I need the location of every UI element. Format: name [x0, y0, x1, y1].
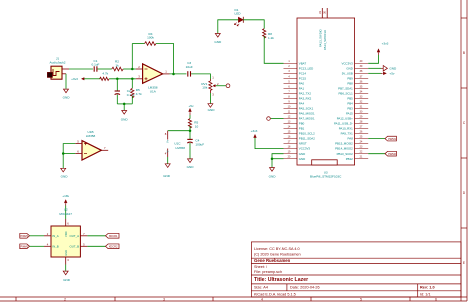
- pin 36 PB8 of U3: [347, 80, 368, 85]
- wire RV1 bottom to gnd: [209, 93, 211, 103]
- wire J1 tip to C1: [69, 68, 93, 70]
- pin 7 OUT_A of U2: [80, 235, 87, 237]
- connector J1 AudioJack2: [47, 56, 69, 79]
- pin 4 IN_B of U2: [44, 245, 51, 247]
- svg-text:4.7k: 4.7k: [136, 92, 142, 96]
- wire PWM1 tag to U2 pin2: [30, 235, 45, 237]
- svg-text:GND: GND: [121, 117, 129, 121]
- op-amp U1B LM358: [75, 130, 108, 160]
- wire U1B to gnd: [62, 154, 64, 169]
- svg-text:Rev: 1.0: Rev: 1.0: [420, 285, 435, 289]
- pin 20 GND of U3: [284, 156, 306, 161]
- svg-text:PA7_MOSI1: PA7_MOSI1: [299, 117, 315, 121]
- pin 8 PA3_RX2 of U3: [284, 95, 312, 100]
- svg-text:E: E: [463, 261, 465, 265]
- ground at RV1: [208, 104, 216, 112]
- power +3v3 at U3 top right: [377, 42, 389, 55]
- svg-text:BluePill_STM32F103C: BluePill_STM32F103C: [310, 175, 342, 179]
- pin 24 PB15_MOSI2 of U3: [335, 141, 368, 146]
- pin 5 OUT_B of U2: [80, 245, 87, 247]
- svg-text:PWM2: PWM2: [21, 245, 29, 249]
- sheet frame bottom border: [0, 297, 467, 301]
- driver U2 MIC4427 body: [51, 226, 80, 257]
- potentiometer RV1 10k: [201, 76, 219, 97]
- svg-text:GND: GND: [64, 250, 68, 256]
- svg-text:Id: 1/1: Id: 1/1: [420, 292, 431, 296]
- svg-text:Size: A4: Size: A4: [254, 285, 268, 289]
- svg-text:3: 3: [163, 297, 165, 301]
- pin 14 PB1 of U3: [284, 125, 305, 130]
- pin 7 PA2_TX2 of U3: [284, 90, 312, 95]
- wire R3 to U1A pin3: [109, 78, 136, 80]
- svg-text:5V_USB: 5V_USB: [342, 71, 353, 75]
- svg-text:PA3_RX2: PA3_RX2: [299, 97, 312, 101]
- svg-text:MIC4427: MIC4427: [59, 212, 72, 216]
- svg-text:NRST: NRST: [299, 142, 307, 146]
- wire feedback top right segment: [156, 44, 174, 75]
- wire RV1 wiper out: [216, 85, 226, 87]
- pin 33 PB5 of U3: [347, 95, 368, 100]
- power +5v right of U3 pin38: [381, 72, 395, 76]
- wire junction to U1C V+: [168, 130, 190, 132]
- svg-text:0.1uF: 0.1uF: [92, 63, 100, 67]
- svg-text:U1C: U1C: [174, 141, 181, 145]
- svg-text:VCC3V3: VCC3V3: [299, 147, 311, 151]
- pin 3 GND of U2: [65, 257, 67, 265]
- wire U2 pin3 to gnd: [65, 265, 67, 271]
- power +5v: [188, 104, 194, 115]
- svg-text:PWM2: PWM2: [388, 152, 396, 156]
- unconnected circle flag at U3 pin12: [267, 117, 271, 121]
- ground right of U3 pin39: [381, 66, 397, 72]
- svg-text:+5v: +5v: [389, 72, 395, 76]
- svg-text:PA0: PA0: [299, 81, 305, 85]
- svg-text:PC15: PC15: [299, 76, 307, 80]
- global label PWM1 at U2 IN_A: [20, 233, 30, 238]
- MCU U3 BluePill_STM32F103C body: [297, 18, 355, 179]
- svg-text:PA14_SWDCLK: PA14_SWDCLK: [323, 30, 327, 50]
- svg-text:6: 6: [435, 297, 437, 301]
- wire gnd node down: [271, 159, 273, 168]
- resistor R3 4.7k: [100, 72, 110, 81]
- svg-text:100uF: 100uF: [195, 143, 204, 147]
- svg-text:PB11_SDA2: PB11_SDA2: [299, 137, 315, 141]
- wire R8 to U3 pin1: [264, 36, 283, 63]
- svg-text:PA6_MISO1: PA6_MISO1: [299, 112, 315, 116]
- pin 1 of U1A: [163, 73, 170, 75]
- svg-text:PB7_SDA1: PB7_SDA1: [338, 87, 353, 91]
- pin 5 PA0 of U3: [284, 80, 305, 85]
- svg-text:File: preamp.sch: File: preamp.sch: [254, 270, 282, 274]
- svg-text:PB0: PB0: [299, 122, 305, 126]
- svg-text:PB5: PB5: [347, 97, 353, 101]
- svg-text:PB12: PB12: [346, 157, 353, 161]
- pin 11 PA6_MISO1 of U3: [284, 110, 316, 115]
- pin 21 PB12 of U3: [346, 156, 368, 161]
- svg-text:2: 2: [64, 297, 66, 301]
- svg-text:PB4: PB4: [347, 102, 353, 106]
- pin 6 of U1B: [75, 153, 82, 155]
- svg-text:LM358: LM358: [176, 146, 186, 150]
- svg-text:+3v3: +3v3: [71, 77, 78, 81]
- junction at C2 top: [116, 78, 119, 81]
- power +3v3 (left arrow): [71, 77, 89, 81]
- svg-text:+5v: +5v: [188, 104, 194, 108]
- svg-text:V-: V-: [166, 150, 170, 153]
- pin 19 GND of U3: [284, 151, 306, 156]
- svg-text:PWM1: PWM1: [21, 234, 29, 238]
- svg-text:Gene Ruebsamen: Gene Ruebsamen: [254, 258, 291, 263]
- pin 6 PA1 of U3: [284, 85, 305, 90]
- pin 6 VDD of U2: [65, 219, 67, 226]
- svg-text:10: 10: [195, 124, 199, 128]
- svg-text:PB8: PB8: [347, 81, 353, 85]
- junction at R5 top: [131, 78, 134, 81]
- pin 16 PB11_SDA2 of U3: [284, 136, 316, 141]
- pin 26 PA9_TX1 of U3: [341, 130, 369, 135]
- svg-text:IN_A: IN_A: [52, 234, 58, 238]
- wire junction down to C4: [189, 131, 191, 139]
- svg-text:+3v3: +3v3: [251, 129, 258, 133]
- svg-text:PA13_SWDIO: PA13_SWDIO: [318, 29, 322, 47]
- svg-text:GND: GND: [299, 152, 305, 156]
- svg-text:PC14: PC14: [299, 71, 307, 75]
- svg-text:GND: GND: [269, 174, 277, 178]
- pin 15 PB10_SCL2 of U3: [284, 130, 316, 135]
- svg-text:Sheet: /: Sheet: /: [254, 265, 268, 269]
- ground under C2/R5: [121, 111, 129, 122]
- pin 2 PC13_LED of U3: [284, 65, 314, 70]
- junction V+ node: [189, 129, 192, 132]
- svg-text:(C) 2020 Gene Ruebsamen: (C) 2020 Gene Ruebsamen: [254, 253, 301, 257]
- wire +3v3 to R3: [89, 78, 100, 80]
- svg-text:PB14_MISO2: PB14_MISO2: [335, 147, 353, 151]
- svg-text:5: 5: [360, 297, 362, 301]
- resistor R5 4.7k: [131, 88, 142, 98]
- pin T of J1: [62, 73, 66, 75]
- wire U3 pin22 to PWM2 tag: [368, 153, 385, 155]
- op-amp power unit U1C: [165, 131, 186, 157]
- pin 34 PB6_SCL1 of U3: [338, 90, 368, 95]
- svg-text:4.7k: 4.7k: [102, 72, 108, 76]
- wire R2 to U1A pin2: [123, 68, 136, 70]
- ground at J1: [63, 89, 71, 99]
- pin 4 V- of U1C: [167, 149, 169, 158]
- pin 31 PB3 of U3: [347, 105, 368, 110]
- pin 9 PA4 of U3: [284, 100, 305, 105]
- pin 17 NRST of U3: [284, 141, 307, 146]
- svg-text:License: CC BY-NC-SA 4.0: License: CC BY-NC-SA 4.0: [254, 247, 300, 251]
- resistor R8 1.2k: [263, 29, 275, 40]
- wire +18v to U2 pin6: [65, 206, 67, 220]
- svg-text:30: 30: [323, 10, 327, 14]
- pin 4 PC15 of U3: [284, 75, 307, 80]
- wire LED right to R8: [243, 20, 264, 29]
- pin 37 PB9 of U3: [347, 75, 368, 80]
- pin 3 of U1A: [136, 78, 143, 80]
- pin 12 PA7_MOSI1 of U3: [284, 115, 316, 120]
- ground at U3: [269, 168, 277, 179]
- power +3v3 at U3 pin18: [251, 129, 258, 138]
- global label PWM1 at U3 pin25: [385, 136, 397, 141]
- svg-text:PB15_MOSI2: PB15_MOSI2: [335, 142, 353, 146]
- wire down to R5: [131, 79, 133, 89]
- wire feedback left vertical: [131, 44, 133, 70]
- svg-text:IN_B: IN_B: [52, 244, 58, 248]
- pin 39 GND of U3: [346, 65, 368, 70]
- svg-text:1k: 1k: [115, 63, 119, 67]
- frame column numbers: [64, 297, 437, 301]
- pin 25 PA8 of U3: [348, 136, 369, 141]
- svg-text:PB9: PB9: [347, 76, 353, 80]
- wire U3 pin38 to +5v: [368, 72, 381, 74]
- pin 38 5V_USB of U3: [342, 70, 368, 75]
- ground at D1: [214, 34, 222, 45]
- pin 2 IN_A of U2: [44, 235, 51, 237]
- svg-text:B: B: [463, 51, 465, 55]
- global label PWM2 at U3 pin22: [385, 151, 397, 156]
- wire U3 pin39 to GND: [368, 67, 381, 69]
- svg-text:GND: GND: [208, 108, 216, 112]
- svg-text:PC13_LED: PC13_LED: [299, 66, 313, 70]
- svg-text:GND: GND: [187, 165, 195, 169]
- svg-text:GND: GND: [389, 67, 397, 71]
- pin 13 PB0 of U3: [284, 120, 305, 125]
- pin 5 of U1B: [75, 143, 82, 145]
- svg-text:PA9_TX1: PA9_TX1: [341, 132, 354, 136]
- pin S of J1: [62, 68, 69, 70]
- svg-text:Title: Ultrasonic Lazer: Title: Ultrasonic Lazer: [254, 277, 308, 283]
- pin 8 V+ of U1C: [167, 131, 169, 140]
- pin 22 PB13_SCK2 of U3: [337, 151, 369, 156]
- svg-text:+3v3: +3v3: [382, 42, 389, 46]
- svg-text:PB3: PB3: [347, 107, 353, 111]
- svg-text:KiCad E.D.A. kicad 5.1.5: KiCad E.D.A. kicad 5.1.5: [254, 292, 296, 296]
- op-amp U1A LM358: [136, 64, 170, 94]
- title block text: [254, 247, 435, 296]
- wire down to C2: [116, 79, 118, 91]
- junction on inverting input: [131, 68, 134, 71]
- pin 18 VCC3V3 of U3: [284, 146, 311, 151]
- svg-text:PA11_USB_D-: PA11_USB_D-: [334, 122, 353, 126]
- svg-text:PA15: PA15: [346, 112, 353, 116]
- pin 27 PA10_RX1 of U3: [339, 125, 368, 130]
- wire +5v to R7: [189, 115, 191, 119]
- wire U3 pin19 to gnd node: [272, 154, 284, 159]
- svg-text:PA5_SCK1: PA5_SCK1: [299, 107, 314, 111]
- svg-text:PA12_USB+: PA12_USB+: [337, 117, 353, 121]
- ground at U1C: [163, 164, 171, 178]
- capacitor C3 10uF: [186, 61, 193, 77]
- wire LED left to gnd: [218, 20, 238, 33]
- pin 40 VCC3V3 of U3: [342, 60, 369, 65]
- pin 1 VBAT of U3: [284, 60, 307, 65]
- resistor R2 1k: [112, 60, 123, 71]
- svg-text:GND: GND: [63, 278, 71, 282]
- svg-text:OUT_A: OUT_A: [69, 234, 79, 238]
- svg-text:PA1: PA1: [299, 87, 305, 91]
- svg-text:LED: LED: [234, 12, 241, 16]
- junction at U1A output: [172, 73, 175, 76]
- svg-text:LM358: LM358: [86, 134, 96, 138]
- svg-text:+18v: +18v: [62, 194, 69, 198]
- pin 7 of U1B: [101, 149, 108, 151]
- svg-text:PA2_TX2: PA2_TX2: [299, 92, 312, 96]
- global label XDCR1 at U2 OUT_A: [106, 233, 120, 238]
- wire to ground: [123, 104, 125, 110]
- svg-text:GND: GND: [299, 157, 305, 161]
- svg-text:GND: GND: [163, 174, 171, 178]
- svg-text:PB1: PB1: [299, 127, 305, 131]
- ground at C4: [187, 159, 195, 169]
- svg-text:XDCR2: XDCR2: [109, 245, 118, 249]
- capacitor C2 0.1uF: [115, 89, 135, 97]
- sheet frame right border: [461, 0, 467, 301]
- svg-text:GND: GND: [63, 95, 71, 99]
- svg-text:PA4: PA4: [299, 102, 305, 106]
- wire U3 pin18 to +3v3: [255, 138, 284, 149]
- svg-text:PB6_SCL1: PB6_SCL1: [338, 92, 353, 96]
- svg-text:AudioJack2: AudioJack2: [50, 60, 66, 64]
- pin 3 PC14 of U3: [284, 70, 307, 75]
- svg-text:PA8: PA8: [348, 137, 354, 141]
- power +18v at U2: [62, 194, 69, 206]
- wire C1 to R2: [98, 68, 112, 70]
- junction at gnd stem: [123, 103, 126, 106]
- svg-text:XDCR1: XDCR1: [109, 234, 118, 238]
- ground at U1B: [61, 168, 69, 178]
- wire C2 bottom: [116, 95, 118, 104]
- junction at U3 gnd node: [271, 157, 274, 160]
- pin 31 PA13_SWDIO of U3: [318, 8, 323, 47]
- svg-text:4: 4: [261, 297, 263, 301]
- pin 23 PB14_MISO2 of U3: [335, 146, 368, 151]
- wire U2 pin7 to XDCR1 tag: [87, 235, 105, 237]
- wire U1C V- to gnd: [167, 157, 169, 164]
- global label PWM2 at U2 IN_B: [20, 244, 30, 249]
- wire R5 bottom: [131, 96, 133, 104]
- pin 28 PA11_USB_D- of U3: [334, 120, 368, 125]
- wire C3 to RV1: [191, 74, 210, 79]
- svg-text:U1A: U1A: [150, 89, 157, 93]
- svg-text:VDD: VDD: [64, 231, 68, 237]
- wire U3 pin25 to PWM1 tag: [368, 138, 385, 140]
- pin 10 PA5_SCK1 of U3: [284, 105, 314, 110]
- wire U3 pin40 to +3v3: [368, 55, 378, 63]
- svg-text:Date: 2020-04-26: Date: 2020-04-26: [290, 285, 320, 289]
- pin 30 PA14_SWDCLK of U3: [323, 8, 328, 50]
- ground at U2: [63, 271, 71, 282]
- frame row letters: [463, 51, 466, 265]
- svg-text:PB10_SCL2: PB10_SCL2: [299, 132, 315, 136]
- wire R7 to junction: [189, 126, 191, 131]
- LED D1: [234, 8, 243, 26]
- svg-text:GND: GND: [61, 175, 69, 179]
- title block: [251, 242, 461, 297]
- wire feedback top left segment: [132, 43, 144, 45]
- wire PWM2 tag to U2 pin4: [30, 245, 45, 247]
- svg-text:10uF: 10uF: [186, 65, 193, 69]
- wire J1 sleeve down: [65, 74, 67, 89]
- pin 35 PB7_SDA1 of U3: [338, 85, 368, 90]
- svg-text:GND: GND: [346, 66, 352, 70]
- wire output to C3: [170, 73, 187, 75]
- svg-text:31: 31: [318, 10, 322, 14]
- resistor R7 10: [188, 119, 198, 129]
- wire U2 pin5 to XDCR2 tag: [87, 245, 105, 247]
- pin 2 of U1A: [136, 68, 143, 70]
- svg-text:10k: 10k: [202, 86, 207, 90]
- svg-text:OUT_B: OUT_B: [69, 244, 79, 248]
- wire joining C2 and R5 bottoms: [117, 103, 132, 105]
- wire circle flag to U3 pin12: [271, 118, 284, 120]
- pin 29 PA12_USB+ of U3: [337, 115, 369, 120]
- svg-text:VBAT: VBAT: [299, 61, 307, 65]
- unconnected circle flag: [226, 84, 230, 88]
- resistor R4 100k: [145, 32, 156, 46]
- junction U1B inputs: [62, 152, 64, 155]
- global label XDCR2 at U2 OUT_B: [106, 244, 120, 249]
- pin 32 PB4 of U3: [347, 100, 368, 105]
- svg-text:PWM1: PWM1: [388, 137, 396, 141]
- svg-text:100k: 100k: [147, 36, 154, 40]
- svg-text:VCC3V3: VCC3V3: [342, 61, 354, 65]
- wire U1B pin5: [63, 144, 75, 154]
- capacitor C4 100uF: [187, 139, 204, 147]
- svg-text:PB13_SCK2: PB13_SCK2: [337, 152, 354, 156]
- svg-text:1.2k: 1.2k: [268, 36, 274, 40]
- wire U3 pin20 to gnd node: [272, 158, 284, 160]
- pin 30 PA15 of U3: [346, 110, 368, 115]
- capacitor C1 0.1uF: [92, 59, 100, 72]
- svg-text:GND: GND: [214, 40, 222, 44]
- svg-text:PA10_RX1: PA10_RX1: [339, 127, 353, 131]
- wire U1B pin6: [63, 153, 75, 155]
- wire C4 to gnd: [189, 143, 191, 159]
- svg-text:V+: V+: [166, 139, 170, 143]
